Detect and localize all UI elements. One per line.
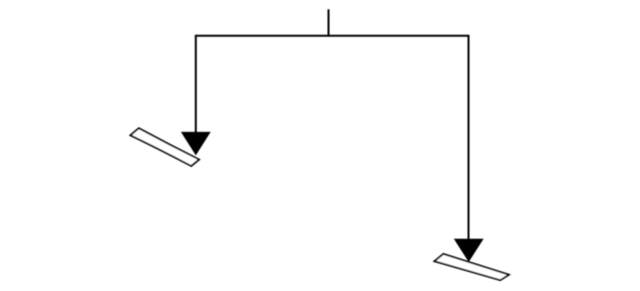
arrowhead left [182, 132, 210, 154]
wire: top stub [328, 9, 330, 35]
part: right moulding strip [434, 254, 509, 280]
wire: bracket (left drop, horizontal, right drop) [196, 36, 469, 241]
part: left moulding strip [130, 128, 199, 166]
arrowhead right [455, 239, 483, 261]
